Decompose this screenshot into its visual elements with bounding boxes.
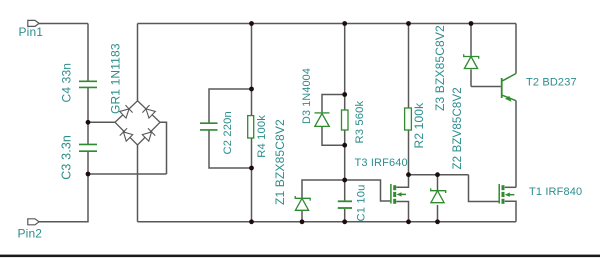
wire: Z1 branch horizontal bbox=[302, 180, 345, 198]
bridge rectifier GR1 diamond bbox=[115, 101, 160, 145]
mosfet T3 bbox=[391, 184, 406, 204]
wire: C4 bottom to node A bbox=[87, 88, 89, 123]
svg-text:R2 100k: R2 100k bbox=[412, 102, 426, 149]
bridge diode top-left bbox=[119, 105, 132, 118]
resistor R2 bbox=[405, 108, 412, 130]
wire: node A to bridge left corner bbox=[88, 121, 115, 123]
mosfet T1 bbox=[499, 184, 514, 204]
wire: Z3 top stem bbox=[470, 24, 472, 56]
wire: left column top vertical to C4 bbox=[87, 24, 89, 82]
wire: Z2 top stem bbox=[437, 175, 439, 190]
svg-text:Pin1: Pin1 bbox=[19, 25, 44, 39]
pin connector Pin2 bbox=[28, 219, 39, 225]
svg-text:GR1 1N1183: GR1 1N1183 bbox=[109, 43, 123, 114]
wire: T3 drain connection bbox=[396, 175, 408, 188]
wire: Z1 bottom to rail bbox=[301, 211, 303, 222]
junction Z2 top / gate-drive net bbox=[435, 172, 440, 177]
wire: Pin1 to left column bbox=[39, 23, 89, 25]
wire: C2 branch top bbox=[209, 89, 252, 123]
svg-text:C2 220n: C2 220n bbox=[222, 111, 234, 154]
wire: bridge right corner drop bbox=[160, 122, 167, 174]
junction Z1 / bottom rail bbox=[300, 219, 305, 224]
wire: top rail bbox=[138, 23, 517, 25]
wire: T2 collector to rail bbox=[515, 24, 517, 74]
svg-text:Z3 BZX85C8V2: Z3 BZX85C8V2 bbox=[433, 25, 447, 111]
wire: T2 emitter to T1 drain bbox=[515, 101, 517, 188]
wire: Z3 bottom stem bbox=[470, 69, 472, 86]
wire: R4 column lower bbox=[251, 138, 253, 222]
resistor R4 bbox=[248, 116, 254, 138]
wire: bridge top corner to top rail bbox=[137, 24, 139, 101]
junction node A (C4/C3/bridge AC1) bbox=[86, 120, 91, 125]
wire: Pin2 to node B bbox=[39, 174, 89, 222]
wire: Z2 bottom stem bbox=[437, 205, 439, 222]
wire: R4 column upper bbox=[251, 24, 253, 116]
junction top rail / R4 column bbox=[249, 21, 254, 26]
junction top rail / R2 column bbox=[406, 21, 411, 26]
svg-text:R3 560k: R3 560k bbox=[354, 101, 366, 144]
bridge diode bottom-right bbox=[142, 128, 155, 141]
wire: T1 gate staircase bbox=[469, 175, 499, 202]
zener Z2 bbox=[431, 188, 446, 202]
svg-text:D3 1N4004: D3 1N4004 bbox=[301, 68, 313, 124]
wire: T1 source connection bbox=[505, 201, 516, 222]
zener Z3 bbox=[464, 54, 479, 68]
wire: T1 drain connection bbox=[505, 186, 516, 188]
zener Z1 bbox=[295, 196, 310, 210]
wire: mid horizontal gate-drive net bbox=[409, 174, 469, 176]
diode D3 bbox=[315, 113, 330, 127]
bridge diode bottom-left bbox=[120, 128, 133, 141]
wire: R2 column lower bbox=[408, 130, 410, 175]
junction top rail / Z3 column bbox=[469, 21, 474, 26]
junction C2/R4 top bbox=[249, 87, 254, 92]
svg-text:C1 10u: C1 10u bbox=[356, 185, 368, 222]
junction T3 source / bottom rail bbox=[406, 219, 411, 224]
bottom border bar bbox=[0, 255, 600, 258]
wire: D3 branch top bbox=[322, 95, 345, 113]
wire: C1 bottom to rail bbox=[344, 209, 346, 222]
junction C1 / bottom rail bbox=[342, 219, 347, 224]
wire: T3 source connection bbox=[396, 202, 408, 222]
wire: C3 top stem bbox=[87, 122, 89, 144]
svg-text:T3 IRF640: T3 IRF640 bbox=[355, 157, 408, 169]
svg-text:C4 33n: C4 33n bbox=[60, 63, 74, 103]
wire: T3 gate jog bbox=[345, 180, 391, 201]
junction C2/R4 bottom bbox=[249, 166, 254, 171]
wire: C3 bottom stem bbox=[87, 152, 89, 174]
capacitor C4 bbox=[79, 81, 97, 87]
wire: T2 base bbox=[471, 86, 501, 88]
wire: bridge bottom corner to bottom rail bbox=[137, 145, 139, 222]
junction Z2 / bottom rail bbox=[435, 219, 440, 224]
junction D3/R3 top bbox=[342, 92, 347, 97]
svg-text:C3 3.3n: C3 3.3n bbox=[60, 135, 74, 180]
junction gate node T3 (C1/Z1/R3) bbox=[342, 178, 347, 183]
svg-text:T1 IRF840: T1 IRF840 bbox=[529, 186, 582, 198]
wire: D3 branch bottom bbox=[322, 127, 345, 146]
capacitor C3 bbox=[79, 144, 97, 151]
junction node B (Pin2/C3/bridge AC2) bbox=[86, 172, 91, 177]
svg-text:Z2 BZV85C8V2: Z2 BZV85C8V2 bbox=[452, 87, 464, 169]
junction R4 column / bottom rail bbox=[249, 219, 254, 224]
junction D3/R3 bottom bbox=[342, 143, 347, 148]
junction T3 drain / R2 / gate-drive net bbox=[406, 172, 411, 177]
svg-text:Z1 BZX85C8V2: Z1 BZX85C8V2 bbox=[273, 119, 287, 205]
wire: R2 column upper bbox=[408, 24, 410, 109]
svg-text:R4 100k: R4 100k bbox=[256, 115, 268, 158]
wire: bottom rail bbox=[138, 221, 517, 223]
junction top rail / R3-D3 column bbox=[342, 21, 347, 26]
wire: node B horizontal to bridge right drop bbox=[88, 173, 167, 175]
wire: C2 branch bottom bbox=[209, 131, 252, 169]
capacitor C2 bbox=[200, 123, 218, 130]
wire: R3 column lower bbox=[344, 130, 346, 200]
pin connector Pin1 bbox=[28, 20, 39, 26]
svg-text:Pin2: Pin2 bbox=[18, 226, 43, 240]
svg-text:T2 BD237: T2 BD237 bbox=[526, 77, 577, 89]
resistor R3 bbox=[342, 110, 349, 130]
transistor T2 bbox=[501, 78, 503, 98]
wire: R3 column upper bbox=[344, 24, 346, 111]
bridge diode top-right bbox=[142, 105, 155, 118]
capacitor C1 bbox=[338, 201, 352, 208]
